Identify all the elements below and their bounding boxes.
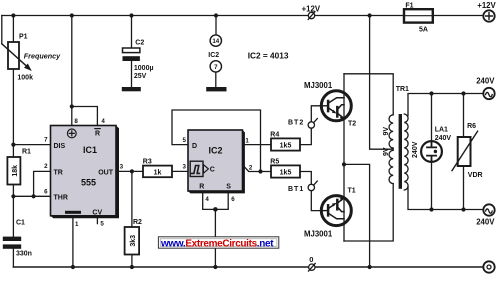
svg-text:R6: R6 <box>467 123 476 130</box>
wire IC2 R/S to ground <box>203 193 229 267</box>
pin 8 plus symbol <box>67 129 76 138</box>
wire emitters to 0V <box>344 164 370 267</box>
svg-text:3k3: 3k3 <box>130 235 137 247</box>
svg-text:R3: R3 <box>143 158 152 165</box>
wire BT2 to T2 base <box>311 106 321 122</box>
wire IC1 pin5 CV stub <box>96 218 98 223</box>
wire DIS to IC1 pin7 <box>13 144 50 146</box>
wire BT1 to T1 base <box>311 191 322 211</box>
fuse F1 <box>404 9 433 22</box>
svg-text:R2: R2 <box>133 219 142 226</box>
wire R5 to BT1 <box>300 172 311 185</box>
terminal 240V top <box>483 88 494 99</box>
svg-text:1: 1 <box>75 221 79 228</box>
svg-text:7: 7 <box>44 136 48 143</box>
node lamp top <box>429 91 433 95</box>
connector 0 bottom <box>309 263 316 271</box>
ground below IC2 pin7 <box>206 87 226 91</box>
wire IC1 pin1 to 0V rail <box>72 218 74 267</box>
capacitor C1 <box>3 196 21 267</box>
svg-text:BT1: BT1 <box>288 186 304 193</box>
svg-text:3: 3 <box>120 163 124 170</box>
svg-text:IC2 = 4013: IC2 = 4013 <box>248 51 289 61</box>
wire OUT pin3 <box>116 170 143 172</box>
op-amp U1 : IC1 555 timer body <box>51 126 117 216</box>
wire T2 vertical through <box>343 74 345 165</box>
svg-text:5: 5 <box>183 137 187 144</box>
wire bottom 0V rail <box>13 266 483 268</box>
svg-text:THR: THR <box>54 195 68 202</box>
wire left wiper drop <box>1 16 3 44</box>
varistor R6 VDR <box>452 94 478 210</box>
svg-text:IC2: IC2 <box>208 52 219 59</box>
resistor R3 <box>143 166 172 178</box>
connector BT2 <box>308 119 317 129</box>
svg-text:OUT: OUT <box>98 170 114 177</box>
svg-text:0: 0 <box>309 255 313 264</box>
svg-text:555: 555 <box>81 177 96 187</box>
svg-text:D: D <box>192 143 197 150</box>
IC2 clock edge symbol <box>190 161 208 176</box>
ground bar inside IC1 (pin1) <box>65 211 81 214</box>
svg-text:CV: CV <box>92 210 102 217</box>
wire IC2 pin2 to R5 <box>243 165 272 172</box>
op-amp U1 : IC1 555 timer box shadow <box>51 126 120 219</box>
transformer TR1 core <box>399 114 402 189</box>
wire R3 to IC2 clock <box>172 170 188 172</box>
node pin8/pin4 junction <box>70 104 74 108</box>
node top rail junction IC2 supply <box>214 13 218 17</box>
svg-text:MJ3001: MJ3001 <box>304 229 333 238</box>
svg-text:9V: 9V <box>383 147 390 156</box>
svg-text:2: 2 <box>249 165 253 172</box>
svg-text:R: R <box>95 131 100 138</box>
IC2 power pin 14 <box>210 16 221 47</box>
svg-text:240V: 240V <box>412 141 419 158</box>
svg-text:240V: 240V <box>476 76 495 85</box>
wire T1 vertical through <box>343 164 345 241</box>
svg-text:C2: C2 <box>135 40 144 47</box>
svg-text:T2: T2 <box>348 120 356 127</box>
svg-text:S: S <box>226 184 231 191</box>
svg-text:240V: 240V <box>435 135 452 142</box>
transformer TR1 primary winding <box>389 115 393 184</box>
svg-text:TR1: TR1 <box>396 86 409 93</box>
svg-text:LA1: LA1 <box>435 127 448 134</box>
svg-text:www.ExtremeCircuits.net: www.ExtremeCircuits.net <box>160 238 274 249</box>
IC2 power pin 7 <box>210 61 221 72</box>
ground below C2 <box>122 87 141 91</box>
svg-text:1: 1 <box>245 137 249 144</box>
svg-text:T1: T1 <box>348 187 356 194</box>
banner www.ExtremeCircuits.net <box>158 237 278 248</box>
svg-text:BT2: BT2 <box>288 120 304 127</box>
svg-text:+12V: +12V <box>477 1 496 10</box>
node VDR top <box>461 91 465 95</box>
terminal 240V bottom <box>483 204 494 215</box>
wire secondary bottom lead <box>408 187 483 210</box>
potentiometer P1 <box>2 16 32 145</box>
wire pin7 to ground <box>215 72 217 87</box>
terminal +12V right <box>483 10 494 21</box>
terminal 0 right <box>483 261 494 272</box>
svg-text:5A: 5A <box>419 26 428 33</box>
svg-text:6: 6 <box>231 196 235 203</box>
svg-text:P1: P1 <box>19 34 28 41</box>
node DIS junction <box>11 143 15 147</box>
node THR junction <box>11 194 15 198</box>
flip-flop IC2 4013 body <box>188 130 243 191</box>
resistor R4 <box>271 138 300 150</box>
svg-text:VDR: VDR <box>468 172 483 179</box>
wire top +12V rail <box>2 15 484 17</box>
svg-text:IC2: IC2 <box>209 146 223 156</box>
capacitor C2 <box>123 16 140 88</box>
transistor Q1 : T2 MJ3001 <box>321 91 351 121</box>
svg-text:18k: 18k <box>12 165 19 177</box>
connector +12V left <box>308 12 315 20</box>
svg-text:+12V: +12V <box>302 5 321 14</box>
svg-text:Frequency: Frequency <box>24 52 61 61</box>
wire T2 collector to transformer primary top <box>344 74 393 115</box>
lamp LA1 <box>421 94 442 210</box>
node top rail to centre tap <box>368 13 372 17</box>
node VDR bottom <box>461 207 465 211</box>
svg-text:8: 8 <box>74 118 78 125</box>
resistor R5 <box>271 165 300 177</box>
node emitter junction <box>342 162 346 166</box>
svg-text:6: 6 <box>44 189 48 196</box>
wire centre tap <box>370 16 394 150</box>
svg-text:TR: TR <box>54 170 63 177</box>
svg-text:MJ3001: MJ3001 <box>304 81 333 90</box>
svg-text:1k: 1k <box>154 169 162 176</box>
wire secondary top lead <box>408 94 483 116</box>
svg-text:DIS: DIS <box>54 143 66 150</box>
svg-text:F1: F1 <box>405 2 413 9</box>
wire D feedback loop <box>172 110 261 172</box>
wire IC2 pin1 to R4 <box>245 144 271 146</box>
node Q-bar junction <box>258 169 262 173</box>
wire IC1 pin8 supply drop <box>71 16 73 126</box>
transformer TR1 secondary winding <box>404 114 408 190</box>
svg-text:R: R <box>199 184 204 191</box>
wire R4 to BT2 <box>300 128 311 144</box>
wire IC1 pin4 branch <box>72 107 98 126</box>
svg-text:9V: 9V <box>383 127 390 136</box>
resistor R1 <box>7 145 20 197</box>
svg-text:IC1: IC1 <box>83 145 97 155</box>
svg-text:R1: R1 <box>22 149 31 156</box>
svg-text:100k: 100k <box>17 75 33 82</box>
svg-text:1k5: 1k5 <box>280 170 292 177</box>
svg-text:14: 14 <box>212 38 219 45</box>
node lamp bottom <box>429 207 433 211</box>
node top rail junction to C2 <box>129 13 133 17</box>
node TR junction <box>31 194 35 198</box>
svg-text:C: C <box>210 166 215 173</box>
svg-text:1000µ: 1000µ <box>134 65 154 72</box>
connector BT1 <box>308 181 317 191</box>
svg-text:2: 2 <box>44 163 48 170</box>
wire TR branch to IC1 pin2 <box>34 171 51 196</box>
svg-text:3: 3 <box>183 164 187 171</box>
wire T1 collector to transformer primary bottom <box>344 184 393 241</box>
svg-text:4: 4 <box>101 118 105 125</box>
svg-text:1k5: 1k5 <box>280 143 292 150</box>
svg-text:25V: 25V <box>134 73 147 80</box>
svg-text:240V: 240V <box>476 217 495 226</box>
node OUT/R2 junction <box>130 169 134 173</box>
svg-text:5: 5 <box>100 221 104 228</box>
transistor Q2 : T1 MJ3001 (mirrored) <box>321 196 351 226</box>
flip-flop IC2 4013 shadow <box>188 130 245 193</box>
wire THR to IC1 pin6 <box>13 195 50 197</box>
svg-text:R4: R4 <box>270 132 279 139</box>
svg-text:C1: C1 <box>16 220 25 227</box>
svg-text:R5: R5 <box>270 158 279 165</box>
resistor R2 <box>125 171 140 267</box>
node top rail / P1 junction <box>11 13 15 17</box>
svg-text:330n: 330n <box>16 250 32 257</box>
svg-text:4: 4 <box>205 196 209 203</box>
svg-text:7: 7 <box>214 64 218 71</box>
